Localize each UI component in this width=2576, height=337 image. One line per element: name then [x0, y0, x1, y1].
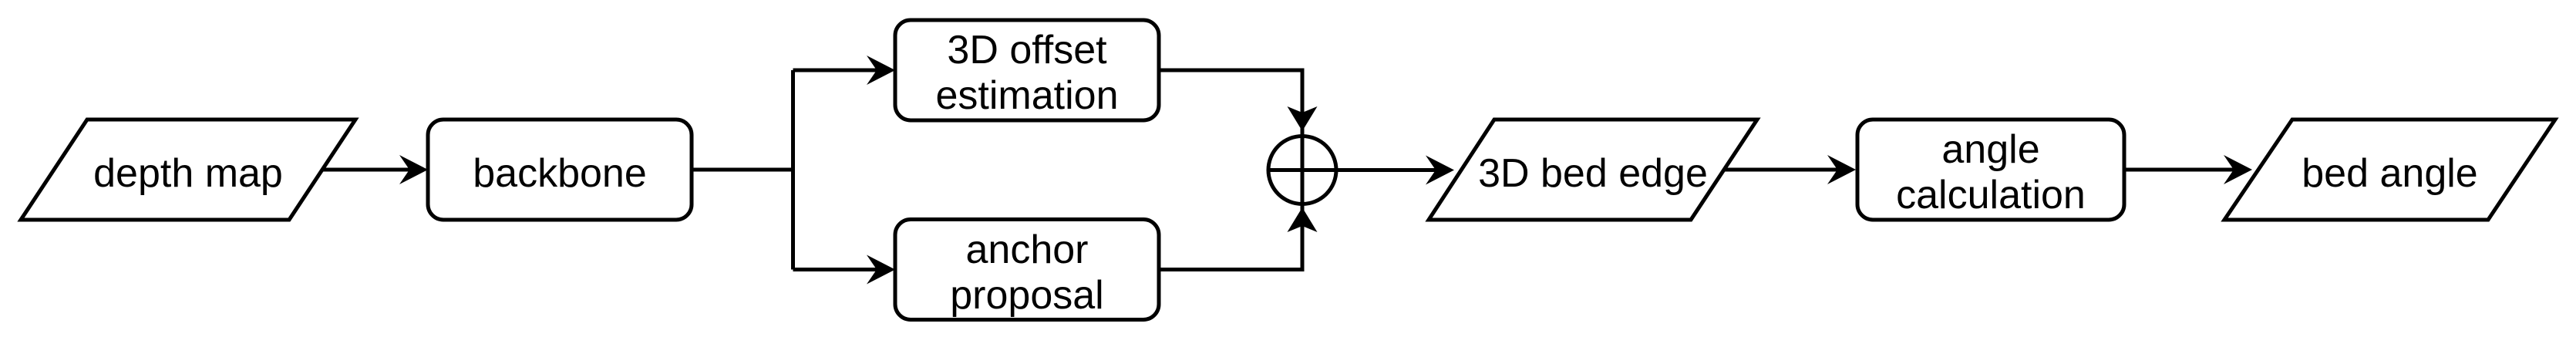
process box: anchor proposal — [895, 220, 1159, 320]
svg-text:3D bed edge: 3D bed edge — [1478, 151, 1708, 196]
svg-text:depth map: depth map — [93, 151, 283, 196]
parallelogram: depth map — [21, 120, 355, 220]
svg-text:angle: angle — [1941, 127, 2039, 172]
svg-text:backbone: backbone — [473, 151, 647, 196]
wire: junction to 3D offset estimation — [793, 69, 877, 72]
svg-text:3D offset: 3D offset — [947, 28, 1107, 72]
wire: summation to 3D bed edge (horizontal plus-line extended) — [1268, 168, 1436, 172]
arrowhead into 3D offset estimation — [867, 56, 895, 85]
wire: vertical split line — [791, 70, 795, 270]
parallelogram: bed angle — [2224, 120, 2555, 220]
wire: backbone to split junction — [692, 168, 793, 172]
parallelogram: 3D bed edge — [1429, 120, 1757, 220]
wire: anchor proposal to summation — [1159, 136, 1302, 270]
svg-text:anchor: anchor — [966, 227, 1089, 272]
wire: angle calculation to bed angle — [2124, 168, 2234, 172]
wire: 3D offset estimation to summation — [1159, 70, 1302, 204]
arrowhead into anchor proposal — [867, 255, 895, 285]
arrowhead into 3D bed edge — [1426, 156, 1454, 185]
svg-text:bed angle: bed angle — [2302, 151, 2477, 196]
arrowhead into summation bottom — [1288, 207, 1318, 232]
arrowhead into angle calculation — [1827, 155, 1856, 184]
arrowhead into bed angle — [2224, 155, 2252, 184]
process box: angle calculation — [1857, 120, 2124, 220]
svg-text:proposal: proposal — [950, 273, 1103, 318]
wire: 3D bed edge to angle calculation — [1724, 168, 1837, 172]
process box: backbone — [428, 120, 692, 220]
wire: depth map to backbone — [322, 168, 409, 172]
svg-text:calculation: calculation — [1896, 173, 2086, 217]
wire: junction to anchor proposal — [793, 268, 877, 271]
process box: 3D offset estimation — [895, 20, 1159, 120]
arrowhead into summation top — [1288, 106, 1318, 131]
summation node: circle with plus — [1268, 136, 1336, 204]
arrowhead into backbone — [399, 155, 428, 184]
svg-text:estimation: estimation — [936, 73, 1119, 118]
